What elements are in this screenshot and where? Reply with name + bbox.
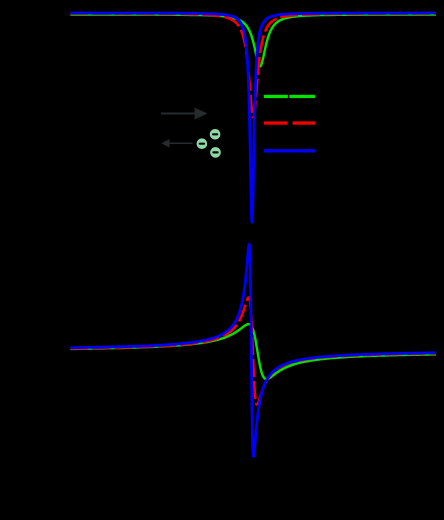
arrow: left-pointing gray (161, 139, 192, 148)
curve: transmission blue (narrow deep dip) (70, 13, 436, 222)
legend swatch: red dashed line (264, 121, 315, 124)
electron symbol 1 (left) (197, 138, 208, 149)
electron symbol 3 (bottom right) (210, 147, 221, 158)
curve: dispersion green (broad) (70, 324, 436, 379)
curve: dispersion red dashed (medium) (70, 298, 436, 405)
legend swatch: green dashed line (264, 95, 315, 98)
curve: dispersion blue (narrow) (70, 244, 436, 456)
legend swatch: blue solid line (264, 149, 315, 152)
arrow: right-pointing gray (161, 108, 208, 120)
electron symbol 2 (top right) (210, 129, 221, 140)
curve: transmission green (broad dip) (70, 15, 436, 67)
curve: transmission red dashed (medium dip) (70, 14, 436, 118)
